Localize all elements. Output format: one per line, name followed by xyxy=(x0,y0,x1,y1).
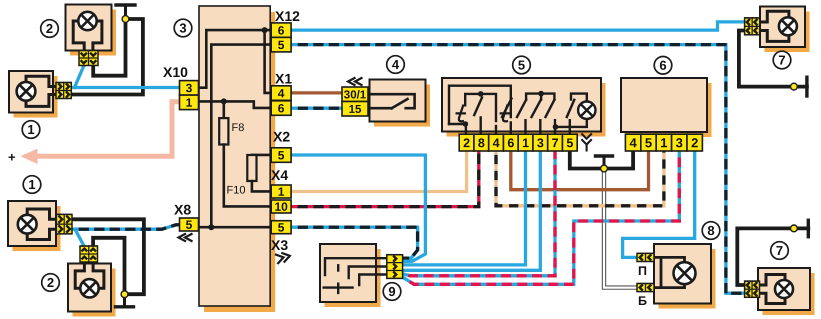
svg-text:9: 9 xyxy=(388,284,395,299)
svg-text:П: П xyxy=(638,264,647,278)
svg-text:1: 1 xyxy=(28,177,35,192)
wire: block internal X12-5 to bottom bus xyxy=(211,45,271,228)
connector X2 pin 5 xyxy=(271,148,291,163)
wire: block internal X10-1 to X1-6 xyxy=(199,98,271,108)
fuse F10 xyxy=(226,155,271,197)
wire: black rear lamp7 top to ground xyxy=(739,31,807,97)
lamp bulb and holder: lamp1 bottom-left xyxy=(18,209,57,240)
label 9 switch xyxy=(383,283,401,301)
svg-text:1: 1 xyxy=(522,136,529,150)
label 8 license lamp xyxy=(702,222,720,240)
svg-text:X2: X2 xyxy=(273,129,290,145)
svg-text:8: 8 xyxy=(707,223,714,238)
svg-text:X12: X12 xyxy=(275,8,300,24)
junction: yellow dot top-right ground xyxy=(791,83,798,90)
wire: block internal X10-3 to X12-6 net xyxy=(199,27,271,88)
svg-text:F8: F8 xyxy=(231,122,244,134)
wire: blue-red dashed switch5 pin7 to switch9 xyxy=(403,151,555,276)
connector at lamp8 pin B xyxy=(637,284,654,292)
svg-text:F10: F10 xyxy=(226,185,245,197)
wire: blue-black dashed X12-5 to rear lamp 7 bottom xyxy=(291,45,745,294)
connector X10 pins 3 and 1 xyxy=(180,81,199,110)
wire: beige-black dashed switch5 pin4 to cluster pin1 xyxy=(496,151,664,206)
switch 9 internal contacts xyxy=(324,258,387,293)
svg-text:7: 7 xyxy=(778,52,785,67)
svg-text:2: 2 xyxy=(46,21,53,36)
svg-text:2: 2 xyxy=(691,135,698,150)
connector X8 pin 5 xyxy=(180,218,199,232)
connector X1 pins 4 and 6 xyxy=(271,86,291,116)
lamp bulb and wiring: lamp8 xyxy=(654,257,696,287)
fuse F8 xyxy=(219,101,271,206)
wire: black lamp2 top-left to ground xyxy=(93,19,125,76)
label 5 light switch xyxy=(513,56,531,74)
ignition switch 4 contacts xyxy=(370,94,415,108)
lamp unit 1 bottom-left xyxy=(8,201,61,251)
marker: double chevron below X8-5 xyxy=(179,234,193,242)
connector pair at lamp2 top-left xyxy=(79,51,98,66)
svg-text:+: + xyxy=(8,150,16,165)
wire: blue cluster pin2 to lamp8 pin P xyxy=(623,151,695,257)
marker: double chevron at X3 xyxy=(275,251,291,264)
svg-text:X4: X4 xyxy=(271,167,288,183)
ignition switch 4 xyxy=(370,80,431,127)
lamp bulb and holder: lamp2 bottom-left xyxy=(75,262,104,297)
label 7 top-right xyxy=(773,51,791,69)
wire: blue X12-6 to rear lamp7 top xyxy=(291,22,744,30)
svg-text:5: 5 xyxy=(566,136,573,150)
ground at cluster xyxy=(596,156,613,169)
svg-text:6: 6 xyxy=(507,136,514,150)
label 2 bottom-left xyxy=(42,274,60,292)
connector pair at lamp1 top-left xyxy=(56,83,71,99)
wire: blue X10-3 to lamp1 top-left xyxy=(71,86,179,89)
svg-text:X3: X3 xyxy=(271,237,288,253)
light switch 5 internal contacts xyxy=(449,86,596,135)
wire: blue branch to lamp2 bottom-left xyxy=(75,229,84,247)
svg-text:5: 5 xyxy=(278,221,285,235)
light switch 5 xyxy=(442,78,606,137)
connector pair at rear lamp7 bottom xyxy=(745,281,760,297)
wire: black rear lamp7 bottom to ground xyxy=(737,220,808,285)
svg-text:7: 7 xyxy=(776,243,783,258)
wire: blue-black dashed X1-6 to ignition switch 15 xyxy=(291,107,342,110)
svg-text:5: 5 xyxy=(278,38,285,52)
junction: yellow dot bottom-right ground xyxy=(791,225,798,232)
switch 9 xyxy=(320,244,381,307)
svg-text:Б: Б xyxy=(638,294,647,308)
junction: yellow dot bottom-left ground xyxy=(121,291,128,298)
wire: blue switch5 pin3 to switch9 xyxy=(403,151,541,270)
label 1 bottom-left xyxy=(23,176,41,194)
license plate lamp 8 xyxy=(654,244,716,309)
wire: blue-black dashed X4-5 to switch9 xyxy=(291,227,418,258)
lamp unit 2 top-left xyxy=(66,5,117,56)
svg-text:2: 2 xyxy=(47,275,54,290)
instrument cluster 6 xyxy=(621,78,712,137)
svg-text:4: 4 xyxy=(278,86,285,100)
wire: white ground wire from junction to lamp 8 pin B xyxy=(604,169,637,288)
connector pair at rear lamp7 top xyxy=(745,18,760,35)
connector at lamp8 pin P xyxy=(637,253,654,261)
ground bottom-left xyxy=(116,294,134,307)
label 2 top-left xyxy=(41,20,59,38)
connector X12 pins 6 and 5 xyxy=(271,23,291,52)
junction: yellow dot top-left ground xyxy=(122,16,129,23)
svg-text:4: 4 xyxy=(392,57,400,72)
wire: blue X2-5 to switch9 xyxy=(291,155,425,261)
wire: black lamp2 bottom-left to ground xyxy=(93,238,124,294)
svg-text:5: 5 xyxy=(518,57,525,72)
svg-text:4: 4 xyxy=(493,136,500,150)
wire: brown X1-4 to ignition switch 30/1 xyxy=(291,91,342,94)
svg-text:7: 7 xyxy=(552,136,559,150)
junction: yellow dot cluster ground xyxy=(601,165,608,172)
connector at switch9 pins xyxy=(387,255,403,279)
label 1 top-left xyxy=(22,121,40,139)
connector X4 pins 1, 10, 5 xyxy=(271,185,291,235)
svg-text:X10: X10 xyxy=(163,64,188,80)
instrument cluster 6 pins 4 5 1 3 2 xyxy=(625,134,702,151)
lamp unit 2 bottom-left xyxy=(68,264,116,317)
svg-text:1: 1 xyxy=(660,135,667,150)
chassis ground symbol at switch5 pin5 xyxy=(581,134,591,152)
wire: block internal junction to X1-4 xyxy=(265,30,272,93)
svg-text:4: 4 xyxy=(629,135,637,150)
svg-text:3: 3 xyxy=(537,136,544,150)
svg-text:5: 5 xyxy=(186,218,193,232)
svg-text:6: 6 xyxy=(278,101,285,115)
label 7 bottom-right xyxy=(771,242,789,260)
svg-text:15: 15 xyxy=(349,104,362,116)
label 4 ignition switch xyxy=(387,56,405,74)
lamp bulb and holder: rear lamp7 bottom xyxy=(760,275,794,304)
svg-text:30/1: 30/1 xyxy=(344,89,367,101)
svg-text:3: 3 xyxy=(186,81,193,95)
svg-text:3: 3 xyxy=(676,135,683,150)
svg-text:10: 10 xyxy=(274,200,288,214)
light switch 5 pins 2 8 4 6 1 3 7 5 xyxy=(459,134,577,151)
svg-text:X8: X8 xyxy=(174,202,191,218)
svg-text:5: 5 xyxy=(645,135,652,150)
wire: blue switch5 pin1 to switch9 xyxy=(403,151,526,265)
wire: blue-black dashed X8-5 to lamp1 bottom-left xyxy=(72,225,180,229)
lamp bulb and holder: lamp2 top-left xyxy=(73,12,102,51)
wire: beige X4-1 to switch5 pin2 xyxy=(291,151,467,192)
ground top-left xyxy=(116,5,135,19)
svg-text:2: 2 xyxy=(463,136,470,150)
rear lamp 7 bottom-right xyxy=(758,268,815,315)
svg-text:1: 1 xyxy=(27,122,34,137)
svg-text:6: 6 xyxy=(659,58,666,73)
rear lamp 7 top-right xyxy=(760,7,810,53)
lamp bulb and holder: rear lamp7 top xyxy=(760,11,797,41)
svg-text:8: 8 xyxy=(478,136,485,150)
lamp bulb and holder: lamp1 top-left xyxy=(17,76,56,106)
svg-text:3: 3 xyxy=(179,20,186,35)
svg-text:X1: X1 xyxy=(275,71,292,87)
mounting block 3 (fuse box) xyxy=(199,6,275,312)
svg-text:6: 6 xyxy=(278,23,285,37)
connector pair at lamp2 bottom-left xyxy=(80,246,98,262)
label 3 mounting block xyxy=(174,19,192,37)
marker: double chevron at ignition switch xyxy=(348,78,363,86)
wire: blue-red dashed cluster pin3 to switch9 xyxy=(404,151,680,284)
wire: block internal bottom bus X8-5 to X4-5 xyxy=(199,224,271,230)
svg-text:1: 1 xyxy=(186,96,193,110)
label 6 cluster xyxy=(654,57,672,75)
ignition switch pins 30/1 and 15 xyxy=(342,87,368,116)
connector pair at lamp1 bottom-left xyxy=(56,214,72,234)
wire: brown switch5 pin6 to cluster pin5 xyxy=(511,151,649,190)
lamp unit 1 top-left xyxy=(9,71,58,118)
svg-text:5: 5 xyxy=(278,148,285,162)
wire: blue branch to lamp2 top-left xyxy=(75,66,84,88)
wire: black lamp1 bottom-left to ground xyxy=(72,219,144,294)
wire: black switch5 pin5 and cluster pin4 to ground xyxy=(570,151,633,169)
wire: salmon battery + feed from X10-1 xyxy=(8,102,180,165)
svg-text:1: 1 xyxy=(278,185,285,199)
wire: red-black dashed X4-10 to switch5 pin8 xyxy=(291,151,479,207)
wire: black lamp1 top-left to ground xyxy=(71,19,143,95)
